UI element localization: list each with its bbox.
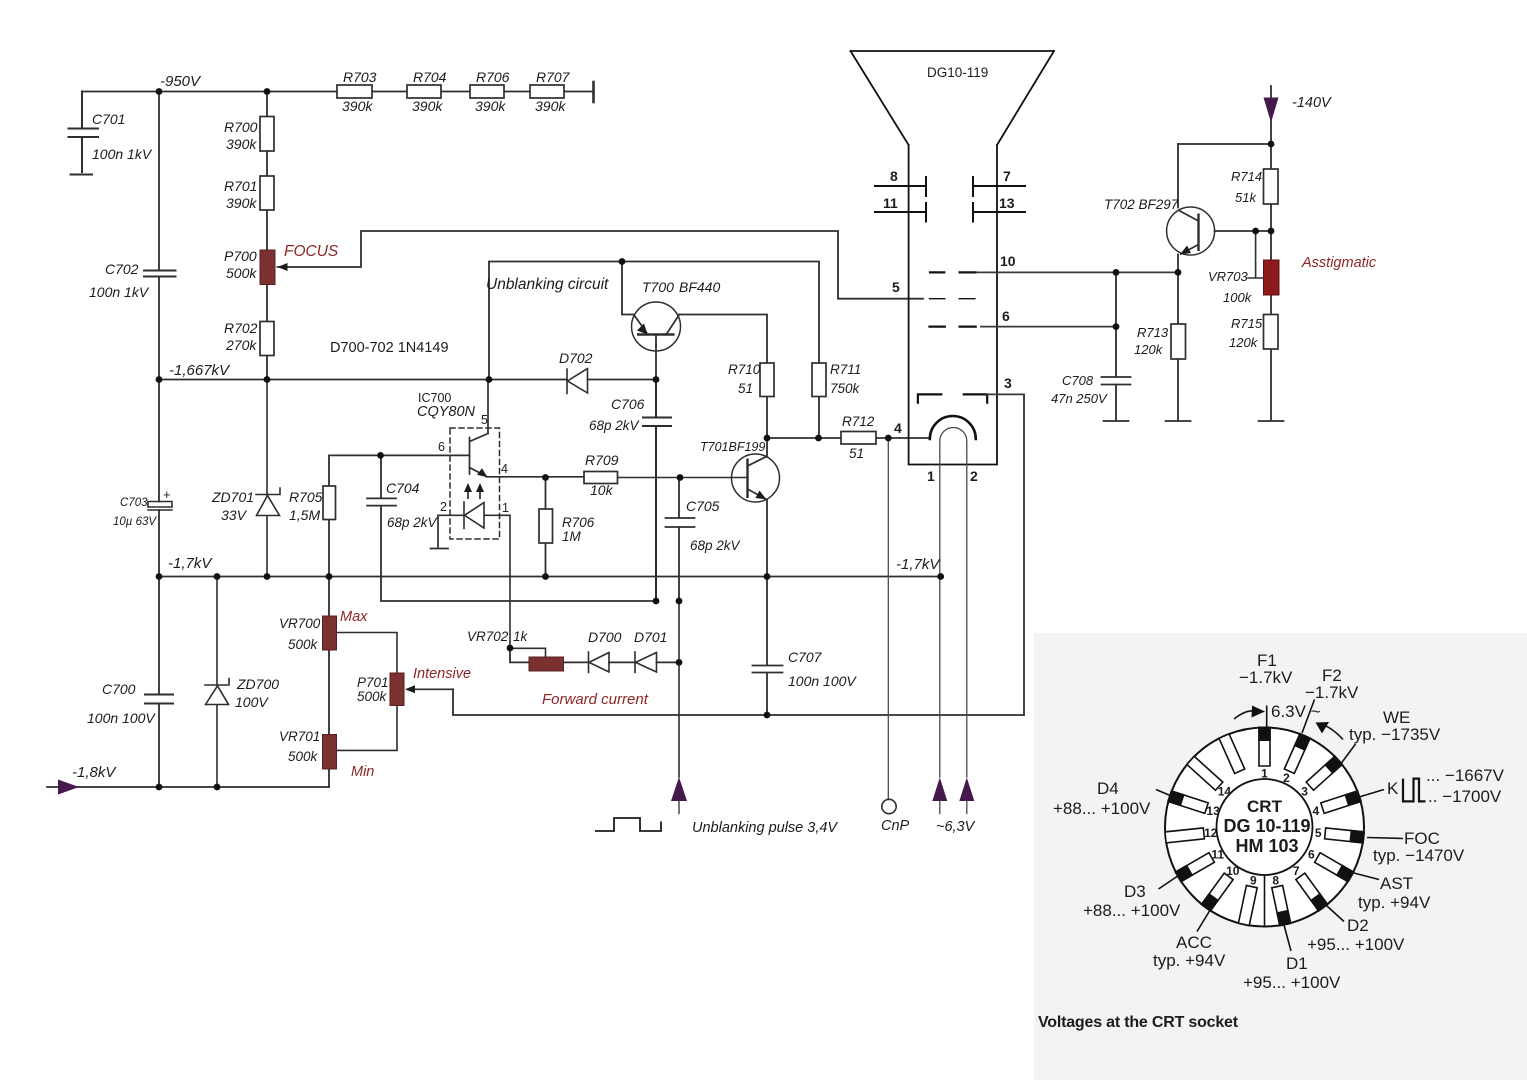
svg-text:Min: Min [351,764,374,780]
svg-text:390k: 390k [226,195,257,211]
wire CnP column [887,438,889,799]
wire opto pin1 down to VR702 [510,648,529,662]
svg-text:68p 2kV: 68p 2kV [589,418,641,433]
svg-text:500k: 500k [288,749,319,764]
CRT socket pin 14 slot [1187,756,1231,798]
svg-text:100k: 100k [1223,290,1253,305]
resistor R710 [760,363,774,397]
svg-text:500k: 500k [226,265,257,281]
svg-text:100n 100V: 100n 100V [788,673,857,689]
capacitor C700 [145,695,173,704]
svg-text:11: 11 [1211,848,1224,862]
svg-text:VR700: VR700 [279,616,321,631]
svg-text:47n 250V: 47n 250V [1051,391,1108,406]
svg-text:-140V: -140V [1292,95,1332,111]
socket K waveform glyph [1403,779,1426,802]
wire tube pin10 line [977,271,1178,273]
wire top -950V rail [82,91,593,93]
CRT socket pin 1 slot [1258,727,1271,781]
svg-text:T701BF199: T701BF199 [700,440,765,454]
wire R700 column [266,92,268,380]
svg-text:D4: D4 [1097,779,1119,798]
svg-text:500k: 500k [288,637,319,652]
wire R713 column + ground [1166,272,1191,421]
svg-text:C708: C708 [1062,373,1094,388]
tube deflection plates dashed row pin6 [930,326,976,328]
svg-text:12: 12 [1204,826,1218,840]
wire T702 base column [1177,144,1179,208]
svg-text:7: 7 [1293,864,1300,878]
resistor R707 [530,85,564,98]
svg-text:+88... +100V: +88... +100V [1083,901,1181,920]
svg-text:1: 1 [502,501,509,515]
transistor T700 BF440 [632,302,681,351]
wire VR702 wiper [510,648,546,657]
wire tube pin6 line [981,326,1116,328]
svg-text:D700-702 1N4149: D700-702 1N4149 [330,340,449,356]
svg-text:10: 10 [1000,253,1016,269]
svg-text:13: 13 [999,195,1015,211]
wire R714 bottom [1270,204,1272,260]
diode D701 [635,652,657,673]
wire R711 bottom [818,397,820,439]
wire -140V feed [1178,86,1271,169]
svg-text:100n 100V: 100n 100V [87,710,156,726]
potentiometer P700 [260,250,288,285]
resistor R711 [812,363,826,397]
svg-text:R712: R712 [842,414,875,429]
svg-text:-1,8kV: -1,8kV [72,764,117,781]
svg-text:R713: R713 [1137,325,1169,340]
waveform glyph unblanking pulse [595,818,661,831]
zener diode ZD700 [205,577,229,788]
CRT socket pin 6 slot [1308,848,1355,883]
wire heater stubs below arrows [940,801,967,814]
capacitor C706 [643,380,671,602]
svg-text:51k: 51k [1235,190,1257,205]
svg-text:-950V: -950V [160,73,202,90]
svg-text:DG10-119: DG10-119 [927,65,988,80]
svg-text:-1,667kV: -1,667kV [169,362,231,379]
diode D700 [589,652,610,673]
svg-text:100n 1kV: 100n 1kV [92,146,153,162]
svg-text:C702: C702 [105,261,139,277]
CRT socket pin blank slot [1219,734,1245,774]
svg-text:2: 2 [970,468,978,484]
svg-text:CRT: CRT [1247,797,1283,816]
svg-text:Voltages at the CRT socket: Voltages at the CRT socket [1038,1014,1239,1031]
svg-text:AST: AST [1380,874,1413,893]
svg-text:R714: R714 [1231,169,1262,184]
wire unblanking stub below arrow [678,801,680,814]
socket ACC leader line [1197,905,1214,932]
svg-text:390k: 390k [535,98,566,114]
svg-text:+95... +100V: +95... +100V [1243,973,1341,992]
arrow unblanking pulse [671,777,687,801]
svg-text:+88... +100V: +88... +100V [1053,799,1151,818]
svg-text:Asstigmatic: Asstigmatic [1301,255,1377,271]
capacitor C703 electrolytic [148,502,172,511]
resistor R712 [841,432,876,445]
socket K leader line [1354,790,1384,799]
svg-text:ZD701: ZD701 [211,489,254,505]
wire R715 bottom + ground [1259,349,1284,421]
zener diode ZD701 [256,380,280,577]
socket 6.3V arrowhead [1252,706,1266,718]
svg-text:~6,3V: ~6,3V [936,819,976,835]
wire VR703 bottom to R715 [1270,295,1272,315]
svg-text:R701: R701 [224,178,257,194]
transistor T702 BF297 [1167,207,1215,255]
svg-text:1,5M: 1,5M [289,507,320,523]
resistor R700 [260,117,274,152]
wire -1,667kV line [159,379,656,381]
terminal CnP circle [882,799,896,813]
opto pin2 ground stub [431,515,449,548]
resistor R703 [337,85,372,98]
capacitor C705 [666,478,695,602]
svg-text:1M: 1M [562,529,582,544]
optocoupler IC700 dashed box [450,428,500,539]
resistor R704 [407,85,441,98]
wire T702 emitter down [1177,255,1179,273]
svg-text:C705: C705 [686,498,720,514]
tube pin 11 deflection lead [875,203,926,222]
svg-text:R703: R703 [343,69,377,85]
CRT socket pin 13 slot [1167,790,1220,818]
resistor R705 [323,486,336,520]
svg-text:390k: 390k [475,98,506,114]
socket WE curved arrow [1321,724,1343,740]
svg-text:R705: R705 [289,489,323,505]
potentiometer VR700 [323,616,337,650]
arrow heater 6,3V right [959,778,974,802]
socket D1 leader line [1284,925,1291,951]
svg-text:270k: 270k [225,337,257,353]
wire R705 bottom [328,520,330,577]
svg-text:6: 6 [438,440,445,454]
svg-text:5: 5 [892,279,900,295]
tube pin 13 deflection lead [973,203,1025,222]
svg-text:51: 51 [738,381,753,396]
svg-text:9: 9 [1250,873,1257,887]
svg-text:BF440: BF440 [679,279,720,295]
svg-text:typ. +94V: typ. +94V [1153,951,1226,970]
capacitor C702 [144,271,176,277]
wire left vertical rail [158,92,160,788]
wire x679 vertical C705/C704-line down to unblanking arrow [678,601,680,777]
arrow heater 6,3V left [932,778,947,802]
svg-text:13: 13 [1206,804,1220,818]
wire VR702 right to D700 [564,661,589,663]
wire P701 wiper [408,688,454,690]
socket WE leader line [1337,744,1356,769]
socket AST leader line [1348,872,1379,880]
svg-text:VR701: VR701 [279,729,320,744]
wire P701 bottom to VR701 wiper [337,706,398,751]
tube pin3 grid brackets [918,394,987,402]
socket 6.3V curved arrow [1234,711,1253,719]
svg-text:K: K [1387,779,1399,798]
svg-text:5: 5 [481,413,488,427]
wire R709 line (opto pin4 to T701 base) [487,476,681,479]
svg-text:R715: R715 [1231,316,1263,331]
svg-text:typ. +94V: typ. +94V [1358,893,1431,912]
CRT socket pin 11 slot [1174,848,1224,883]
CRT socket pin 3 slot [1301,755,1343,798]
svg-text:11: 11 [883,195,898,211]
svg-text:10µ 63V: 10µ 63V [113,516,157,528]
potentiometer VR702 [529,657,564,671]
svg-text:R706: R706 [562,515,595,530]
CRT socket pin 2 slot [1283,733,1311,786]
capacitor C704 [367,455,656,601]
svg-text:Intensive: Intensive [413,666,471,682]
svg-text:4: 4 [894,420,902,436]
svg-text:C701: C701 [92,111,125,127]
diode D702 [567,369,588,394]
svg-text:C700: C700 [102,681,136,697]
wire T701 collector [766,438,768,457]
svg-text:R702: R702 [224,320,258,336]
svg-text:typ. −1735V: typ. −1735V [1349,725,1441,744]
wire R706 stem [545,478,547,577]
svg-text:8: 8 [1272,873,1279,887]
svg-text:10: 10 [1226,864,1240,878]
tube deflection plates dashed row pin10 [930,271,976,273]
socket 6.3V tick line to pin1 [1266,706,1268,730]
CRT socket pin 5 slot [1315,826,1365,844]
svg-text:R709: R709 [585,452,619,468]
svg-text:D1: D1 [1286,954,1308,973]
svg-text:10k: 10k [590,482,614,498]
svg-text:P701: P701 [357,675,389,690]
svg-text:1: 1 [1261,767,1268,781]
svg-text:D2: D2 [1347,916,1369,935]
svg-text:120k: 120k [1134,342,1164,357]
svg-text:C706: C706 [611,396,645,412]
potentiometer P701 [390,673,415,706]
socket WE arrowhead [1316,722,1330,734]
wire R710 bottom [766,397,768,439]
svg-text:3: 3 [1004,375,1012,391]
svg-text:2: 2 [440,500,447,514]
svg-text:ACC: ACC [1176,933,1212,952]
svg-text:C704: C704 [386,480,420,496]
svg-text:+95... +100V: +95... +100V [1307,935,1405,954]
svg-text:T702 BF297: T702 BF297 [1104,197,1179,212]
svg-text:33V: 33V [221,507,248,523]
wire D701 to x679 vertical [657,661,680,663]
wire R705 top corner to opto base [329,455,470,486]
svg-text:Unblanking pulse 3,4V: Unblanking pulse 3,4V [692,820,838,836]
CRT socket panel gray background [1034,633,1527,1080]
wire VR700 column [328,577,330,788]
wire intensity line y715 [453,394,1024,715]
svg-text:R706: R706 [476,69,510,85]
svg-text:P700: P700 [224,248,257,264]
svg-text:51: 51 [849,446,864,461]
resistor R702 [260,322,274,356]
node terminal end bar right of R707 [592,82,595,102]
svg-text:−1.7kV: −1.7kV [1305,683,1359,702]
wire node line R710/R711/R712 [767,437,930,439]
opto transistor [470,380,489,477]
tube heater filament hairpin [940,428,967,777]
svg-text:.. −1700V: .. −1700V [1428,787,1502,806]
wire T700 base down [655,335,657,380]
svg-text:14: 14 [1218,784,1232,798]
svg-text:ZD700: ZD700 [236,676,279,692]
svg-text:100V: 100V [235,694,269,710]
svg-text:8: 8 [890,168,898,184]
socket D4 leader line [1156,790,1173,797]
tube pin 7 deflection lead [973,177,1025,196]
arrow -1,8kV supply [58,780,79,795]
CRT socket pin 9 slot [1238,873,1257,925]
svg-text:T700: T700 [642,279,674,295]
resistor R715 [1264,315,1279,350]
wire -1,7kV rail [159,576,941,578]
svg-text:FOCUS: FOCUS [284,243,339,260]
svg-text:typ. −1470V: typ. −1470V [1373,846,1465,865]
socket D2 leader line [1322,901,1345,922]
CRT socket pin 8 slot [1272,873,1292,926]
potentiometer VR701 [323,735,337,770]
svg-text:3: 3 [1301,784,1308,798]
capacitor C707 [753,577,783,716]
opto LED [438,502,510,648]
svg-text:100n 1kV: 100n 1kV [89,284,150,300]
svg-text:Forward current: Forward current [542,691,649,708]
CRT socket pin 10 slot [1200,864,1239,912]
capacitor C701 [69,92,99,175]
svg-text:D702: D702 [559,350,593,366]
svg-text:6: 6 [1002,308,1010,324]
resistor R706b [470,85,504,98]
wire -1,8kV bottom rail [47,786,329,788]
tube deflection plates dashed row pin5 [930,298,975,300]
resistor R706 [539,509,553,543]
svg-text:750k: 750k [830,381,861,396]
svg-text:390k: 390k [226,136,257,152]
svg-text:-1,7kV: -1,7kV [896,556,941,573]
socket D3 leader line [1159,875,1181,890]
svg-text:R710: R710 [728,362,761,377]
svg-text:R711: R711 [830,362,861,377]
wire T700 collector to R710 [679,315,767,364]
svg-text:68p 2kV: 68p 2kV [690,538,742,553]
wire FOCUS net: P700 wiper to tube pin5 [278,231,924,299]
transistor T701 BF199 [732,454,780,502]
svg-text:4: 4 [501,462,508,476]
CRT socket pin 7 slot [1293,864,1329,912]
svg-text:C707: C707 [788,649,823,665]
CRT socket pin 12 slot [1165,826,1218,843]
CRT socket inner circle [1217,779,1313,875]
svg-text:5: 5 [1315,826,1322,840]
potentiometer VR703 [1264,260,1280,295]
svg-text:6: 6 [1308,848,1315,862]
opto LED light arrows [464,483,484,499]
socket F2 leader line [1302,700,1315,734]
svg-text:VR703: VR703 [1208,269,1249,284]
svg-text:1: 1 [927,468,935,484]
svg-text:R704: R704 [413,69,447,85]
wire T701 emitter down to -1,7kV rail [766,500,768,577]
CRT socket key line between pins 8 and 9 [1264,875,1266,926]
wire T702 collector line [1215,230,1271,232]
svg-text:... −1667V: ... −1667V [1426,766,1505,785]
svg-text:390k: 390k [412,98,443,114]
svg-text:-1,7kV: -1,7kV [168,555,213,572]
resistor R714 [1264,169,1279,204]
resistor R701 [260,176,274,210]
resistor R709 [584,472,618,484]
svg-text:1k: 1k [513,629,529,644]
svg-text:CQY80N: CQY80N [417,404,476,420]
wire unblanking box corner [489,262,819,380]
CRT tube DG10-119 envelope [851,51,1055,465]
CRT socket outer circle [1165,728,1364,927]
svg-text:VR702: VR702 [467,629,509,644]
svg-text:Unblanking circuit: Unblanking circuit [486,276,609,293]
capacitor C708 + ground [1102,272,1131,421]
svg-text:R700: R700 [224,119,258,135]
svg-text:IC700: IC700 [418,391,451,405]
svg-text:7: 7 [1003,168,1011,184]
svg-text:R707: R707 [536,69,571,85]
svg-text:C703: C703 [120,497,148,509]
wire tube pin3 lead [987,393,1024,395]
svg-text:DG 10-119: DG 10-119 [1223,816,1310,836]
svg-text:2: 2 [1283,771,1290,785]
svg-text:+: + [163,487,171,502]
resistor R713 [1171,324,1186,359]
tube cathode arc [930,416,976,439]
svg-text:D3: D3 [1124,882,1146,901]
svg-text:68p 2kV: 68p 2kV [387,515,439,530]
svg-text:390k: 390k [342,98,373,114]
wire T700 emitter from node 262 [622,262,634,315]
svg-text:D701: D701 [634,629,667,645]
socket FOC leader line [1367,838,1403,839]
svg-text:CnP: CnP [881,818,910,834]
svg-text:−1.7kV: −1.7kV [1239,668,1293,687]
svg-text:HM 103: HM 103 [1235,836,1298,856]
arrow -140V supply [1264,98,1279,123]
svg-text:4: 4 [1313,804,1320,818]
wire T701 base [680,477,748,479]
svg-text:120k: 120k [1229,335,1259,350]
wire VR703 wiper [1248,231,1264,278]
wire VR700 wiper to P701 top [337,633,398,674]
svg-text:Max: Max [340,609,368,625]
wire D700-D701 [609,661,635,663]
tube pin 8 deflection lead [875,177,926,196]
svg-text:D700: D700 [588,629,622,645]
svg-text:500k: 500k [357,689,388,704]
CRT socket pin 4 slot [1313,790,1362,818]
